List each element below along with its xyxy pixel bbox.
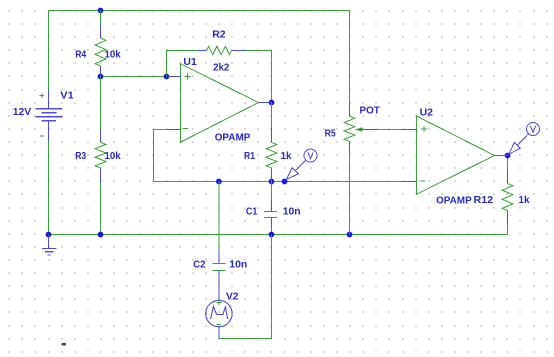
svg-text:R3: R3 xyxy=(75,150,86,162)
value 10n C2 xyxy=(229,259,247,271)
svg-text:12V: 12V xyxy=(13,106,31,118)
junction lower rail / R3 xyxy=(98,232,104,238)
wire POT wiper to U2 xyxy=(377,129,404,131)
junction U2 output node xyxy=(505,153,511,159)
op-amp U2 xyxy=(403,116,508,194)
svg-text:10k: 10k xyxy=(105,49,121,61)
value 1k R12 xyxy=(519,194,530,206)
svg-text:OPAMP: OPAMP xyxy=(436,195,472,207)
label OPAMP U1 xyxy=(215,132,251,144)
label R5 xyxy=(325,127,336,139)
junction U1 output node xyxy=(269,100,275,106)
svg-text:C2: C2 xyxy=(193,259,206,271)
value 2k2 R2 xyxy=(213,62,229,74)
resistor R1 xyxy=(266,128,277,182)
svg-text:U2: U2 xyxy=(420,106,434,118)
label R3 xyxy=(75,150,86,162)
wire + input row xyxy=(101,76,169,78)
wire R4 top lead xyxy=(100,11,102,24)
wire mid rail xyxy=(154,181,404,183)
op-amp U1 xyxy=(168,64,271,142)
svg-text:R1: R1 xyxy=(244,150,255,162)
svg-text:V1: V1 xyxy=(60,90,74,102)
svg-text:POT: POT xyxy=(360,104,381,116)
junction mid rail / C2 xyxy=(216,179,222,185)
resistor R3 xyxy=(95,129,106,182)
ground xyxy=(42,235,56,255)
label C1 xyxy=(246,206,258,218)
value 1k R1 xyxy=(281,150,292,162)
junction top rail / R4 xyxy=(98,8,104,14)
wire R3 top lead xyxy=(100,77,102,130)
capacitor C1 xyxy=(264,200,277,229)
junction mid rail / R1 C1 xyxy=(269,179,275,185)
wire V1 bottom xyxy=(48,141,50,234)
wire V1 top drop xyxy=(48,11,50,91)
label C2 xyxy=(193,259,206,271)
wire top rail xyxy=(49,10,350,12)
svg-text:R4: R4 xyxy=(75,49,86,61)
svg-text:V2: V2 xyxy=(226,291,239,303)
wire C1 bottom lead xyxy=(271,228,273,235)
label U1 xyxy=(183,56,197,68)
cursor mark xyxy=(62,343,66,346)
svg-text:C1: C1 xyxy=(246,206,258,218)
potentiometer R5 POT xyxy=(344,103,376,153)
label POT xyxy=(360,104,381,116)
label R12 xyxy=(474,194,494,206)
junction + row / R2 branch xyxy=(164,74,170,80)
svg-text:R2: R2 xyxy=(212,29,225,41)
wire lower rail xyxy=(49,234,508,236)
wire R3 bottom lead xyxy=(100,182,102,234)
label V2 xyxy=(226,291,239,303)
svg-text:R12: R12 xyxy=(474,194,494,206)
wire R2 right branch xyxy=(246,51,272,103)
wire R1 top lead xyxy=(271,103,273,128)
junction lower rail / C1 V2 xyxy=(269,232,275,238)
junction mid rail / probe xyxy=(282,179,288,185)
label R4 xyxy=(75,49,86,61)
label R2 xyxy=(212,29,225,41)
svg-text:1k: 1k xyxy=(281,150,292,162)
wire R1 bottom lead xyxy=(271,168,273,182)
svg-text:10k: 10k xyxy=(105,150,121,162)
wire R2 left branch xyxy=(167,51,197,77)
voltage probe V mid rail xyxy=(286,149,317,180)
label R1 xyxy=(244,150,255,162)
value 10k R4 xyxy=(105,49,121,61)
wire U1 minus branch xyxy=(154,130,169,182)
wire R12 bottom lead xyxy=(507,224,509,235)
value 10k R3 xyxy=(105,150,121,162)
label OPAMP U2 xyxy=(436,195,472,207)
wire V2 return xyxy=(219,235,272,339)
wire C1 top lead xyxy=(271,182,273,200)
voltage probe V U2 output xyxy=(509,123,540,155)
resistor R2 xyxy=(197,46,246,54)
capacitor C2 xyxy=(213,250,226,301)
svg-text:1k: 1k xyxy=(519,194,530,206)
svg-text:OPAMP: OPAMP xyxy=(215,132,251,144)
resistor R12 xyxy=(502,170,513,224)
junction lower rail / POT xyxy=(347,232,353,238)
wire POT top lead xyxy=(349,11,351,103)
svg-text:10n: 10n xyxy=(283,206,301,218)
junction lower rail / V1 ground xyxy=(46,232,52,238)
wire C2 top lead xyxy=(218,182,220,251)
label U2 xyxy=(420,106,434,118)
value 10n C1 xyxy=(283,206,301,218)
svg-text:R5: R5 xyxy=(325,127,336,139)
value 12V xyxy=(13,106,31,118)
label V1 xyxy=(60,90,74,102)
sine source V2 xyxy=(206,270,232,338)
junction + row / R4 R3 xyxy=(98,74,104,80)
svg-text:2k2: 2k2 xyxy=(213,62,229,74)
battery V1 xyxy=(36,90,63,141)
wire POT bottom lead xyxy=(349,153,351,235)
resistor R4 xyxy=(95,24,106,77)
svg-text:U1: U1 xyxy=(183,56,197,68)
svg-text:10n: 10n xyxy=(229,259,247,271)
wire R12 top lead xyxy=(507,156,509,171)
